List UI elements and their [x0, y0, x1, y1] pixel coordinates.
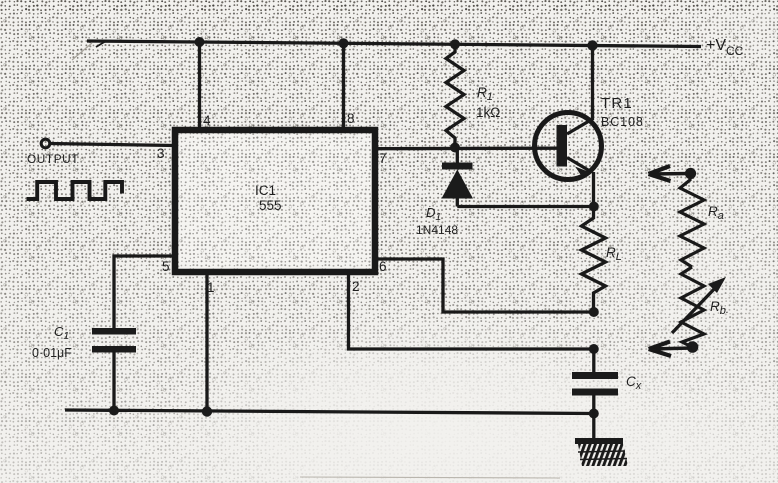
svg-text:4: 4 [203, 113, 211, 128]
node: pin7 / R1 / D1 junction [450, 143, 460, 153]
wire: +Vcc top rail [87, 41, 701, 47]
wire: pin 6 to RL bottom [375, 259, 594, 312]
wire: C1 to ground rail [112, 352, 115, 411]
node: C1 ground junction [109, 406, 119, 416]
svg-text:1N4148: 1N4148 [416, 223, 458, 237]
resistor RL [582, 207, 606, 313]
arrow: Rb wiper [672, 277, 726, 333]
node: pin6 junction [589, 307, 599, 317]
wire: pin 5 to C1 [114, 256, 175, 329]
svg-text:555: 555 [259, 198, 282, 213]
wire: bottom ground rail [65, 410, 594, 414]
square wave symbol [27, 182, 123, 199]
arrow: Ra top connection [649, 166, 697, 181]
wire: pin 2 to Cx top [349, 272, 595, 349]
svg-text:8: 8 [347, 111, 355, 126]
wire: TR1 emitter down [592, 172, 595, 207]
transistor TR1 [535, 113, 602, 180]
svg-text:2: 2 [352, 279, 360, 294]
node: rail junction pin 8 [339, 38, 349, 48]
capacitor Cx [572, 372, 618, 396]
wire: pin 1 to ground rail [205, 272, 208, 412]
resistor Rb (variable) [681, 267, 704, 347]
wire: D1 anode to emitter junction [457, 205, 594, 208]
ground [575, 438, 628, 466]
node: pin1 ground junction [202, 406, 212, 416]
node: rail junction pin 4 [195, 37, 205, 47]
svg-text:7: 7 [379, 151, 387, 166]
svg-text:1: 1 [207, 280, 215, 295]
node: Cx ground junction [589, 409, 599, 419]
wire: TR1 collector to rail [591, 46, 594, 121]
arrow: Rb bottom connection [649, 341, 699, 356]
diode D1 [442, 163, 474, 199]
wire: pin 8 to rail [342, 43, 345, 130]
svg-text:3: 3 [157, 146, 165, 161]
terminal: OUTPUT circle [41, 139, 50, 148]
node: pin2 junction [589, 344, 599, 354]
wire: pin 7 to TR1 base [375, 147, 557, 151]
svg-text:OUTPUT: OUTPUT [27, 152, 79, 166]
svg-text:IC1: IC1 [255, 183, 276, 198]
wire: Cx to ground rail [592, 396, 595, 441]
capacitor C1 [92, 328, 136, 353]
svg-text:6: 6 [379, 259, 387, 274]
node: emitter / D1 / RL junction [589, 202, 599, 212]
resistor Ra [680, 175, 704, 267]
wire: pin 4 to rail [198, 42, 201, 130]
IC IC1 555 [178, 133, 372, 269]
wire: pin 3 to OUTPUT terminal [50, 144, 175, 146]
resistor R1 [446, 44, 464, 147]
svg-text:TR1: TR1 [601, 95, 633, 112]
svg-text:5: 5 [162, 259, 170, 274]
node: rail junction TR1 collector [587, 40, 597, 50]
wire: pin2 junction to Cx [592, 349, 595, 372]
svg-text:1kΩ: 1kΩ [476, 105, 500, 120]
svg-text:BC108: BC108 [601, 115, 644, 129]
node: rail junction R1 [450, 39, 460, 49]
svg-text:0·01μF: 0·01μF [32, 346, 72, 360]
